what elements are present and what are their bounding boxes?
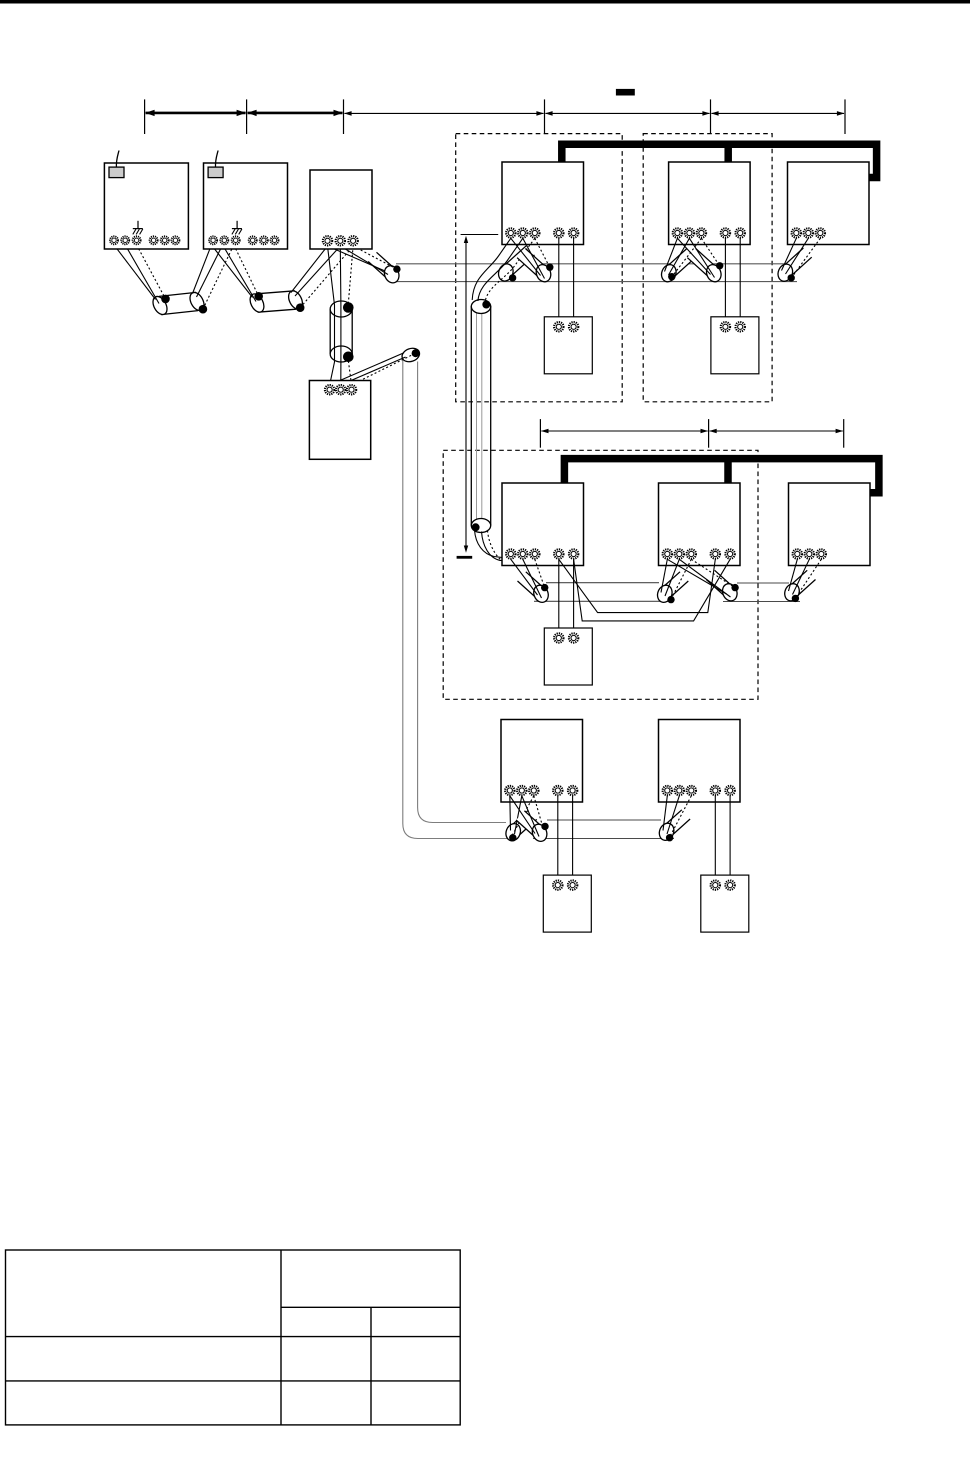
terminal block TB5 of IU2 bbox=[673, 228, 706, 237]
conduit stub below IU7 left bbox=[503, 810, 536, 843]
conduit stub CD4 (junction box to 1F feeder) bbox=[400, 346, 421, 364]
riser tube bottom junction dot bbox=[472, 523, 480, 531]
conduit stub below IU6 bbox=[782, 570, 815, 603]
dimension arrow segment 4 bbox=[545, 111, 710, 116]
riser tube top opening bbox=[471, 300, 490, 314]
indoor unit IU6 cabinet bbox=[789, 483, 871, 566]
conduit stub below IU3 bbox=[776, 248, 812, 283]
terminal block TB15 of IU7 bbox=[553, 786, 577, 795]
riser tube exit wires to unit IU4 bbox=[475, 530, 535, 565]
remote controller RC2 box bbox=[711, 317, 759, 374]
indoor unit IU3 cabinet bbox=[788, 162, 870, 245]
dimension tick marks (middle row) bbox=[540, 419, 843, 448]
conduit stub CD3 (pull box to 2F run) bbox=[368, 252, 401, 285]
specification table outer frame bbox=[6, 1250, 461, 1425]
conduit stub below IU8 bbox=[657, 810, 690, 843]
dimension arrow segment 2 (thick) bbox=[247, 110, 343, 116]
terminal block TB1 of OU1 (L N earth) bbox=[110, 236, 141, 244]
wires to remote controller RC1 bbox=[559, 238, 574, 322]
terminal block of pull box PB1 bbox=[323, 236, 358, 245]
dimension arrow segment 6 bbox=[541, 429, 708, 434]
earth symbol in OU2 bbox=[232, 221, 242, 235]
shielded transmission bus (upper floor) bbox=[562, 144, 877, 177]
table row line 1 bbox=[6, 1336, 461, 1338]
dashed enclosure group A bbox=[456, 134, 623, 402]
conduit stub below IU2 right bbox=[687, 249, 723, 284]
conduit stub below IU5 right bbox=[706, 570, 739, 603]
wires IU1 to riser tube bbox=[472, 238, 535, 302]
drop conduit walls (below pull box PB1) bbox=[330, 309, 352, 354]
dimension arrow segment 3 bbox=[344, 111, 544, 116]
indoor unit IU5 cabinet bbox=[659, 483, 741, 566]
remote controller RC5 box bbox=[701, 875, 749, 932]
conduit tube CD1 (outdoor unit 1 to 2) bbox=[150, 290, 207, 317]
terminal block TB5 of IU3 bbox=[792, 228, 825, 237]
terminal block TB5 of IU7 bbox=[505, 786, 538, 795]
terminal block of RC1 bbox=[554, 322, 578, 331]
table header split line bbox=[281, 1306, 460, 1308]
MA remote daisy-chain wire IU4 to IU5 second bbox=[574, 559, 731, 621]
table column divider 2 bbox=[370, 1307, 372, 1425]
wires IU8 to stub bbox=[663, 796, 691, 838]
wires pull box PB1 to conduit CD3 bbox=[328, 246, 397, 275]
wires to remote controller RC3 bbox=[559, 559, 574, 633]
terminal block TB5 of IU6 bbox=[793, 549, 826, 558]
terminal block TB15 of IU8 bbox=[711, 786, 735, 795]
wires IU7 to right stub bbox=[510, 796, 543, 837]
wires to remote controller RC5 bbox=[715, 796, 730, 881]
dashed enclosure group C bbox=[443, 450, 758, 699]
wires IU2 to right stub bbox=[677, 238, 719, 277]
terminal block TB15 of IU1 bbox=[554, 228, 578, 237]
remote controller RC1 box bbox=[544, 317, 592, 374]
terminal block TB5 of IU4 bbox=[506, 549, 539, 558]
terminal block of RC5 bbox=[711, 880, 735, 889]
run pair unit4 to unit5 bbox=[534, 583, 673, 602]
conduit stub below IU4 bbox=[518, 572, 551, 605]
terminal block of junction box JB1 bbox=[325, 385, 356, 394]
indoor unit IU7 cabinet bbox=[501, 720, 583, 803]
terminal block TB5 of IU5 bbox=[663, 549, 696, 558]
drop conduit top junction dot bbox=[343, 302, 354, 313]
outdoor unit OU2 cabinet bbox=[204, 163, 288, 249]
vertical height dimension arrow bbox=[464, 236, 468, 553]
indoor unit IU1 cabinet bbox=[502, 162, 584, 245]
power pigtail into OU2 bbox=[215, 151, 218, 168]
page top rule bbox=[0, 0, 970, 4]
run pair unit5 to unit6 bbox=[723, 583, 800, 602]
terminal block TB15 of IU5 bbox=[711, 549, 735, 558]
power run pair (2F horizontal) bbox=[392, 264, 797, 282]
conduit stub below IU7 right bbox=[516, 811, 549, 844]
long vertical feeder pair to 1F units bbox=[403, 360, 512, 839]
dashed enclosure group B bbox=[643, 134, 772, 402]
pull box PB1 cabinet bbox=[310, 170, 372, 249]
indoor unit IU8 cabinet bbox=[659, 720, 741, 803]
shielded transmission bus (lower floor group) bbox=[564, 459, 879, 493]
remote controller RC3 box bbox=[544, 628, 592, 685]
MA remote daisy-chain wire IU4 to IU5 bbox=[559, 559, 716, 612]
table row line 2 bbox=[6, 1380, 461, 1382]
wires conduit CD2 to pull box PB1 bbox=[291, 246, 353, 308]
dimension tick marks (top row) bbox=[145, 99, 845, 134]
conduit stub below IU2 left bbox=[659, 249, 695, 284]
terminal block TB2 of OU2 (spare) bbox=[249, 236, 279, 244]
wires IU3 to stub bbox=[782, 238, 821, 278]
terminal block TB15 of IU4 bbox=[554, 549, 578, 558]
indoor unit IU2 cabinet bbox=[669, 162, 751, 245]
power pigtail into OU1 bbox=[116, 151, 119, 168]
wires outdoor unit 2 to conduit CD2 bbox=[211, 245, 258, 302]
breaker block of OU2 bbox=[208, 167, 223, 178]
wires conduit CD1 to outdoor unit 2 bbox=[193, 245, 234, 309]
wires IU1 to right stub bbox=[511, 238, 550, 278]
wires to remote controller RC4 bbox=[558, 796, 573, 881]
conduit stub below IU1 right bbox=[517, 249, 553, 284]
wires pull box PB1 to junction box JB1 bbox=[328, 246, 354, 385]
conduit stub below IU1 left (to riser) bbox=[496, 246, 534, 283]
junction box JB1 cabinet bbox=[309, 381, 370, 460]
drop conduit bottom opening bbox=[330, 346, 352, 362]
terminal block TB5 of IU8 bbox=[663, 786, 696, 795]
terminal block TB2 of OU1 (spare) bbox=[150, 236, 180, 244]
wires outdoor unit 1 to conduit CD1 bbox=[114, 245, 166, 304]
terminal block of RC4 bbox=[553, 880, 577, 889]
dimension end bar bbox=[457, 556, 473, 559]
wires IU5 to left stub bbox=[661, 559, 691, 599]
wires IU5 to right stub bbox=[667, 559, 735, 597]
wires IU6 to stub bbox=[789, 559, 822, 598]
wires to remote controller RC2 bbox=[725, 238, 740, 322]
reference leader line at IU1 terminals bbox=[461, 234, 499, 236]
riser tube walls (group A to group C) bbox=[471, 306, 490, 526]
wires IU4 to stub bbox=[511, 559, 545, 598]
drop conduit bottom junction dot bbox=[343, 352, 354, 363]
remote controller RC4 box bbox=[543, 875, 591, 932]
indoor unit IU4 cabinet bbox=[502, 483, 584, 566]
drop conduit top opening bbox=[330, 301, 352, 317]
riser tube bottom opening bbox=[471, 519, 490, 533]
terminal block of RC2 bbox=[721, 322, 745, 331]
riser tube top junction dot bbox=[482, 301, 490, 309]
run pair unit7 to unit8 bbox=[533, 820, 674, 839]
dimension arrow segment 5 bbox=[711, 111, 845, 116]
conduit tube CD2 (outdoor unit 2 to pull box) bbox=[247, 289, 305, 315]
earth symbol in OU1 bbox=[133, 221, 143, 235]
riser tube inner wires bbox=[477, 303, 482, 523]
dimension arrow segment 7 bbox=[709, 429, 843, 434]
legend mark (shielded-cable sample) bbox=[616, 89, 635, 96]
terminal block TB15 of IU2 bbox=[721, 228, 745, 237]
conduit stub below IU5 left bbox=[655, 572, 688, 605]
outdoor unit OU1 cabinet bbox=[104, 163, 188, 249]
wires junction box JB1 to conduit CD4 bbox=[330, 353, 416, 385]
terminal block TB5 of IU1 bbox=[506, 228, 539, 237]
breaker block of OU1 bbox=[109, 167, 124, 178]
wires IU7 to left stub bbox=[510, 796, 534, 838]
terminal block of RC3 bbox=[554, 633, 578, 642]
terminal block TB1 of OU2 (L N earth) bbox=[209, 236, 240, 244]
wires IU2 to left stub bbox=[665, 238, 702, 277]
table column divider 1 bbox=[280, 1250, 282, 1425]
dimension arrow segment 1 (thick) bbox=[145, 110, 246, 116]
